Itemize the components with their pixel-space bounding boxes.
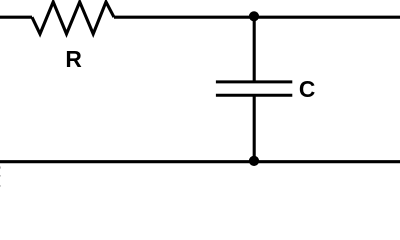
wire vertical lower (capacitor to bottom rail) <box>253 95 256 162</box>
wire top-left segment <box>0 16 32 19</box>
svg-text:C: C <box>299 76 315 102</box>
capacitor C top plate <box>216 80 292 83</box>
capacitor C bottom plate <box>216 94 292 97</box>
edge artifact dashes bottom-left <box>0 167 2 187</box>
wire vertical upper (node to capacitor) <box>253 17 256 82</box>
node junction bottom <box>249 156 259 166</box>
resistor R <box>32 2 114 34</box>
node junction top <box>249 11 259 21</box>
wire bottom rail <box>0 160 400 163</box>
wire top-right segment <box>114 16 400 19</box>
svg-text:R: R <box>65 46 81 72</box>
